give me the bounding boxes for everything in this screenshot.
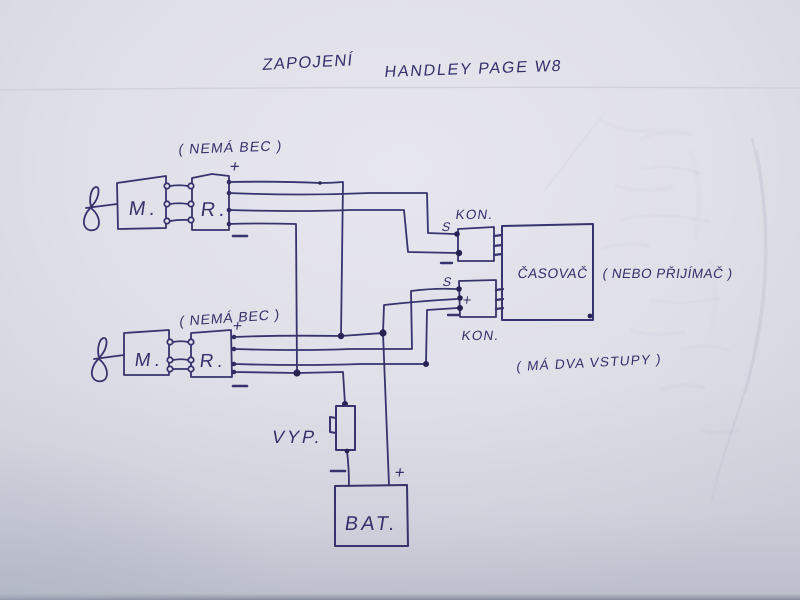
paper crease top xyxy=(0,87,800,90)
battery BAT xyxy=(335,485,408,546)
label (NEBO PRIJIMAC) xyxy=(602,266,734,281)
svg-text:M.: M. xyxy=(133,350,165,371)
wire R2 out3 to KON2 minus xyxy=(234,308,458,365)
minus label R2 xyxy=(233,385,247,388)
ribbon KON2 to CASOVAC xyxy=(496,289,503,309)
connector KON1 xyxy=(458,227,494,261)
svg-text:R.: R. xyxy=(198,351,228,372)
wire junction to BAT plus xyxy=(383,333,389,485)
plus label BAT xyxy=(393,463,406,482)
pins R2 out xyxy=(232,335,237,375)
minus label KON2 xyxy=(448,314,459,316)
timer CASOVAC xyxy=(502,224,593,320)
svg-text:KON.: KON. xyxy=(455,207,495,222)
wires M2-R2 xyxy=(173,341,188,369)
wires M1-R1 xyxy=(170,185,188,221)
plus label R2 xyxy=(231,317,243,335)
wire junction to KON2 plus xyxy=(383,299,457,333)
minus label BAT xyxy=(331,470,345,473)
wire R2 signal to KON2 S xyxy=(234,289,456,350)
wire plus bus R2 to junction xyxy=(234,333,383,337)
S label KON2 xyxy=(441,275,453,289)
regulator R2 xyxy=(191,330,232,377)
pins M1-R1 xyxy=(164,183,193,223)
S label KON1 xyxy=(440,220,452,234)
ribbon KON1 to CASOVAC xyxy=(494,235,502,255)
label (NEMA BEC) 2 xyxy=(179,306,281,329)
plus label KON2 xyxy=(461,292,472,309)
minus label KON1 xyxy=(441,262,452,264)
pin dots KON1 xyxy=(454,231,462,256)
regulator R1 xyxy=(192,174,229,230)
wire R1 minus down xyxy=(229,224,297,373)
plus label R1 xyxy=(228,157,241,176)
minus label R1 xyxy=(233,235,247,238)
switch tab xyxy=(330,417,336,433)
pins M2-R2 xyxy=(167,339,193,371)
wire R1 out3 to KON1 minus xyxy=(229,210,457,253)
svg-text:BAT.: BAT. xyxy=(343,513,399,535)
pins R1 out xyxy=(227,180,232,227)
junction dots xyxy=(293,329,429,407)
wire R1 signal to KON1 S xyxy=(229,193,454,234)
propeller P2 xyxy=(92,338,107,381)
motor M2 xyxy=(124,330,169,375)
title HANDLEY PAGE W8 xyxy=(384,57,564,81)
connector KON2 xyxy=(459,280,496,317)
wire VYP to BAT minus xyxy=(347,451,349,486)
switch VYP xyxy=(336,406,355,450)
propeller P1 xyxy=(84,187,99,230)
paper edge curve right xyxy=(712,138,765,500)
title ZAPOJENI xyxy=(262,50,355,74)
wire R1 plus to bus xyxy=(229,182,343,336)
svg-text:KON.: KON. xyxy=(461,328,501,343)
svg-text:R.: R. xyxy=(199,199,230,221)
svg-text:ČASOVAČ: ČASOVAČ xyxy=(517,265,589,281)
svg-text:( NEBO PŘIJÍMAČ ): ( NEBO PŘIJÍMAČ ) xyxy=(602,266,734,281)
motor shaft M2 xyxy=(94,355,124,359)
pin dots KON2 xyxy=(456,286,463,311)
motor M1 xyxy=(117,176,166,229)
blob on wire xyxy=(318,181,322,185)
motor shaft M1 xyxy=(86,204,117,208)
wire minus bus R2 xyxy=(234,372,345,404)
label (NEMA BEC) 1 xyxy=(178,137,284,156)
svg-text:M.: M. xyxy=(127,198,160,220)
label (MA DVA VSTUPY) xyxy=(516,352,663,374)
svg-text:VYP.: VYP. xyxy=(270,427,325,447)
